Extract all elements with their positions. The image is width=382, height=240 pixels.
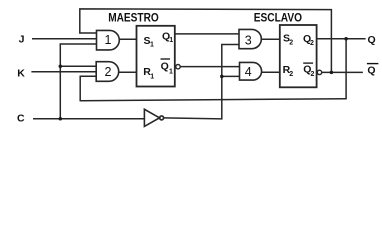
bubble Q2-bar <box>317 70 321 74</box>
svg-text:Q: Q <box>161 61 169 73</box>
wire C-bar branch to AND4 <box>222 75 240 77</box>
svg-text:2: 2 <box>310 40 314 47</box>
wire C branch to AND2 <box>60 65 96 67</box>
svg-text:1: 1 <box>105 33 112 47</box>
wire Q-bar output <box>322 71 363 73</box>
wire top feedback Q-bar <box>80 9 332 73</box>
svg-text:1: 1 <box>150 42 154 49</box>
wire AND2 output to R1 <box>119 71 137 73</box>
inverter bubble <box>160 116 164 120</box>
svg-text:MAESTRO: MAESTRO <box>108 13 159 25</box>
wire C lead <box>33 118 144 120</box>
wire bottom Q return <box>80 99 346 101</box>
svg-text:J: J <box>19 34 25 46</box>
svg-text:3: 3 <box>245 34 252 48</box>
wire Q1 to AND3 <box>175 33 239 35</box>
wire J lead <box>32 38 97 40</box>
and-gate 4 <box>240 62 262 80</box>
junction C to AND2 <box>59 64 63 68</box>
svg-text:2: 2 <box>289 71 293 78</box>
svg-text:Q: Q <box>368 34 376 46</box>
svg-text:ESCLAVO: ESCLAVO <box>254 13 302 25</box>
svg-text:2: 2 <box>105 65 112 79</box>
junction C-bar to AND4 <box>220 75 224 79</box>
svg-text:K: K <box>17 67 25 79</box>
wire Q1-bar to AND4 <box>180 66 239 68</box>
and-gate 2 <box>96 62 119 82</box>
wire Q feedback riser <box>345 39 347 100</box>
bubble Q1-bar <box>176 65 180 69</box>
wire AND1 output to S1 <box>119 38 136 40</box>
inverter triangle <box>144 109 159 126</box>
svg-text:1: 1 <box>150 74 154 81</box>
latch box master <box>137 26 175 87</box>
and-gate 3 <box>239 29 261 48</box>
junction Q output <box>344 37 348 41</box>
wire AND4 output to R2 <box>262 71 280 73</box>
and-gate 1 <box>97 30 120 50</box>
svg-text:C: C <box>17 112 25 124</box>
svg-text:4: 4 <box>245 65 252 79</box>
svg-text:1: 1 <box>169 37 173 44</box>
wire AND3 output to S2 <box>262 38 280 40</box>
svg-text:1: 1 <box>169 68 173 75</box>
junction Q-bar output <box>330 71 334 75</box>
wire Q return riser to AND2 <box>80 76 96 101</box>
svg-text:2: 2 <box>289 39 293 46</box>
svg-text:Q: Q <box>367 64 375 76</box>
latch box slave <box>280 25 317 87</box>
junction C lead <box>59 117 63 121</box>
wire Q output <box>317 38 366 40</box>
wire K lead <box>31 71 96 73</box>
wire C riser to AND1 <box>60 44 96 119</box>
wire inverter output riser <box>164 44 239 118</box>
svg-text:2: 2 <box>311 71 315 78</box>
